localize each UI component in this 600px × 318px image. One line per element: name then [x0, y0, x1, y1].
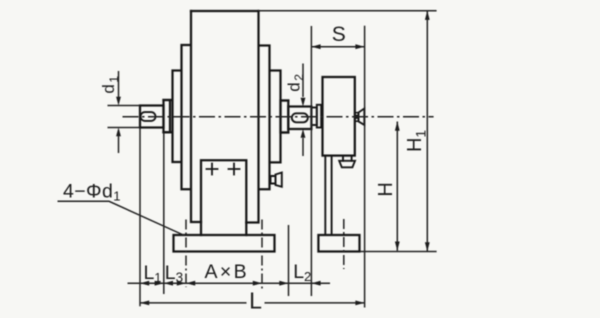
gearbox housing left outline steps [164, 11, 202, 222]
arrowhead L left [140, 301, 149, 306]
output bearing cap (right) [281, 101, 289, 133]
main bottom dimension line [128, 282, 331, 284]
arrowhead L2 left (outside) [279, 281, 288, 286]
arrowhead L1 left [140, 281, 149, 286]
main centerline [123, 116, 434, 118]
H1 dimension line [426, 11, 428, 252]
arrowhead H1 top [425, 11, 430, 20]
coupling ring B [317, 105, 321, 128]
svg-text:H1: H1 [404, 130, 429, 152]
brake unit foot [318, 235, 359, 252]
output shaft end (d2) [288, 107, 311, 130]
input shaft end (d1) [140, 106, 164, 128]
base plate bolt centerline right [261, 220, 263, 291]
S dimension line [311, 46, 364, 48]
leader line 4-phi-d1 [58, 201, 185, 235]
L dimension line [140, 302, 365, 304]
arrowhead AxB right [253, 281, 262, 286]
svg-text:S: S [332, 23, 346, 46]
pedestal cross mark right [229, 164, 240, 175]
svg-text:L1: L1 [144, 262, 162, 285]
arrowhead S right [355, 44, 364, 49]
svg-text:L: L [249, 288, 262, 314]
gearbox housing right outline steps [246, 11, 288, 223]
base plate bolt centerline left [185, 220, 187, 288]
oil plug boss on housing right [271, 176, 276, 184]
brake foot centerline [343, 219, 345, 269]
svg-text:H: H [375, 182, 397, 196]
arrowhead d1 down [116, 97, 121, 106]
brake support column [325, 156, 331, 235]
extension line L2 left [288, 225, 290, 296]
svg-text:d2: d2 [284, 74, 306, 92]
d2 arrow lower [302, 138, 304, 156]
H dimension line [396, 122, 398, 251]
arrowhead AxB left [186, 281, 195, 286]
arrowhead L3 left [164, 281, 173, 286]
arrowhead H top [395, 122, 400, 131]
arrowhead L1 right [155, 281, 164, 286]
top extension line [259, 10, 437, 12]
brake unit right hub (ribbed) [355, 113, 359, 122]
brake unit lower plug neck [343, 156, 352, 161]
svg-text:d1: d1 [99, 76, 121, 94]
extension line S right / L right [364, 26, 366, 308]
d1 arrow upper [118, 71, 120, 97]
pedestal cross mark left [207, 164, 218, 175]
oil plug cone [276, 173, 282, 187]
svg-text:L2: L2 [293, 261, 311, 284]
arrowhead d2 down [301, 98, 306, 107]
d2 arrow upper [302, 64, 304, 98]
pedestal foot [201, 160, 246, 235]
extension line S left / L2 right [310, 26, 312, 296]
arrowhead H bottom [395, 242, 400, 251]
arrowhead d1 up [116, 128, 121, 137]
d1 extension lines [108, 106, 141, 128]
input shaft keyway [141, 112, 156, 121]
svg-text:4−Φd1: 4−Φd1 [63, 181, 121, 204]
svg-text:L3: L3 [165, 262, 183, 285]
brake unit lower plug cup [339, 161, 355, 168]
base plate [174, 235, 275, 252]
ground extension line right [360, 251, 437, 253]
arrowhead L right [355, 301, 364, 306]
svg-text:A×B: A×B [204, 261, 249, 283]
arrowhead L2 right (outside) [311, 281, 320, 286]
input bearing cap (left) [164, 100, 171, 132]
brake unit body [323, 77, 355, 156]
arrowhead L3 right [177, 281, 186, 286]
gearbox housing top edge [191, 10, 259, 12]
output shaft keyway [292, 113, 308, 122]
arrowhead d2 up [301, 129, 306, 138]
coupling ring A [311, 108, 316, 126]
d1 arrow lower [118, 136, 120, 153]
arrowhead H1 bottom [425, 242, 430, 251]
extension line L1/L3 [163, 132, 165, 294]
arrowhead S left [311, 44, 320, 49]
extension line L left [139, 128, 141, 306]
brake unit right cone tip [359, 109, 365, 126]
